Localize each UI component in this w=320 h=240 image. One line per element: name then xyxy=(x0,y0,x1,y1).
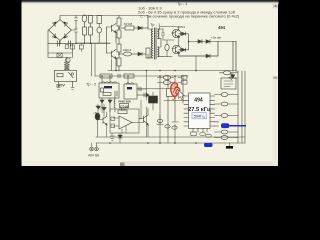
svg-text:40V 8A: 40V 8A xyxy=(88,154,100,158)
svg-text:230V: 230V xyxy=(56,84,65,88)
svg-text:Тр - 1: Тр - 1 xyxy=(177,1,188,6)
svg-text:КД213: КД213 xyxy=(123,48,132,52)
svg-text:594Гц: 594Гц xyxy=(194,114,206,119)
svg-text:Тр - 2: Тр - 2 xyxy=(86,82,97,87)
svg-text:РИВ 508: РИВ 508 xyxy=(119,99,131,103)
svg-text:494: 494 xyxy=(218,25,226,30)
svg-text:494: 494 xyxy=(194,97,203,103)
svg-text:БУ108: БУ108 xyxy=(124,22,133,26)
svg-text:С - 2м сечение провода на перв: С - 2м сечение провода на первичке силов… xyxy=(140,14,240,19)
svg-text:27.5 кГц: 27.5 кГц xyxy=(188,107,211,113)
svg-text:+3в фв: +3в фв xyxy=(211,36,221,40)
svg-text:КТ819: КТ819 xyxy=(177,25,185,29)
